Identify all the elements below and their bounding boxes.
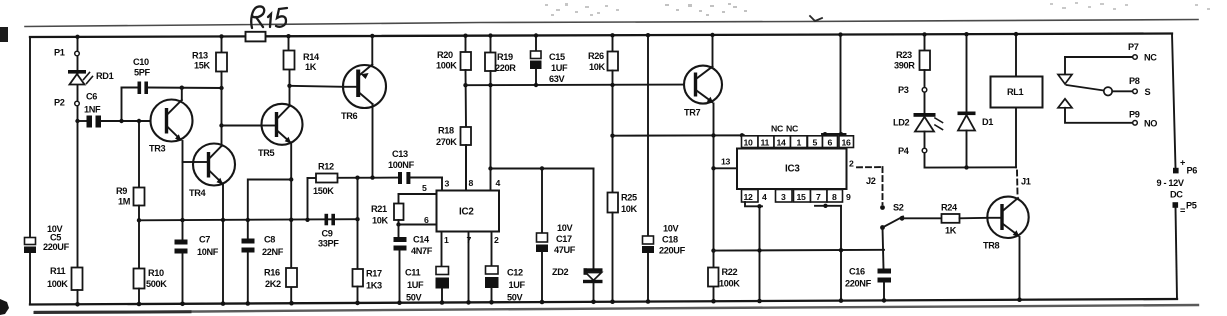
- svg-text:1M: 1M: [118, 197, 131, 207]
- svg-text:P1: P1: [54, 48, 65, 58]
- svg-text:+: +: [1180, 158, 1185, 168]
- capacitor C5: [25, 238, 36, 245]
- svg-text:RL1: RL1: [1007, 87, 1024, 97]
- svg-text:R19: R19: [497, 52, 513, 62]
- handwritten R15 annotation: [251, 6, 287, 28]
- svg-text:4: 4: [496, 178, 501, 188]
- svg-text:C8: C8: [264, 235, 275, 245]
- svg-text:R18: R18: [438, 126, 454, 136]
- svg-text:P9: P9: [1129, 110, 1140, 120]
- svg-text:500K: 500K: [146, 279, 167, 289]
- svg-text:ZD2: ZD2: [552, 267, 569, 277]
- node P4: [924, 132, 926, 148]
- svg-text:1NF: 1NF: [84, 105, 101, 115]
- IC op-amp IC2: [437, 191, 500, 232]
- svg-text:1K: 1K: [945, 226, 957, 236]
- svg-text:10K: 10K: [621, 204, 638, 214]
- wire P4 to relay coil node: [925, 153, 1017, 167]
- svg-text:D1: D1: [982, 117, 993, 127]
- scan artifact noise patch right: [1050, 2, 1210, 10]
- relay RL1: [1015, 34, 1017, 76]
- capacitor C12: [486, 266, 499, 274]
- svg-text:R9: R9: [116, 186, 127, 196]
- svg-text:C10: C10: [133, 57, 149, 67]
- scan artifact tick mark: [810, 16, 822, 21]
- left rail wire: [29, 37, 31, 238]
- IC2 pin 1: [441, 232, 443, 267]
- svg-text:6: 6: [828, 137, 833, 147]
- svg-text:16: 16: [842, 137, 852, 147]
- junction on P wire: [75, 119, 79, 123]
- scan artifact top line: [25, 20, 1198, 27]
- IC2 pin 2: [491, 232, 493, 267]
- node P2: [75, 101, 80, 106]
- svg-text:P2: P2: [54, 98, 65, 108]
- svg-text:DC: DC: [1170, 190, 1183, 200]
- capacitor C8: [289, 177, 293, 181]
- capacitor C15: [535, 36, 537, 52]
- svg-text:10: 10: [744, 137, 754, 147]
- wire P1 branch vertical: [77, 37, 79, 268]
- node P3: [924, 70, 926, 87]
- capacitor C17: [540, 166, 544, 170]
- bottom rail: [30, 299, 1177, 305]
- capacitor C18: [647, 35, 649, 236]
- scan artifact left edge blob top: [0, 27, 8, 42]
- svg-text:P7: P7: [1128, 42, 1139, 52]
- svg-text:10K: 10K: [372, 216, 389, 226]
- svg-text:5: 5: [422, 183, 427, 193]
- svg-text:1K3: 1K3: [366, 281, 382, 291]
- svg-text:C15: C15: [549, 52, 565, 62]
- svg-text:RD1: RD1: [96, 71, 114, 81]
- resistor R23: [924, 34, 926, 50]
- resistor R21: [398, 194, 400, 204]
- transistor TR4: [183, 161, 194, 163]
- svg-text:TR6: TR6: [341, 111, 358, 121]
- svg-text:2: 2: [494, 235, 499, 245]
- svg-text:12: 12: [744, 192, 754, 202]
- scan artifact left edge blob bottom: [0, 299, 9, 315]
- resistor R16: [289, 218, 293, 222]
- IC2 pin 3: [441, 178, 443, 191]
- wire IC3 pin 16 to rail: [840, 35, 842, 134]
- svg-text:R26: R26: [588, 51, 604, 61]
- svg-text:2K2: 2K2: [265, 279, 281, 289]
- top rail junction dot P wire: [75, 35, 79, 39]
- svg-text:NC: NC: [786, 124, 799, 134]
- IC logic IC3: [737, 149, 847, 190]
- wire R14 to TR6 base: [287, 84, 291, 88]
- svg-text:5: 5: [813, 137, 818, 147]
- capacitor C7: [180, 218, 184, 222]
- wire to IC3 pin10: [613, 135, 745, 136]
- wire pin4 bus y168: [491, 168, 594, 170]
- svg-text:10V: 10V: [663, 224, 680, 234]
- svg-text:100K: 100K: [719, 279, 740, 289]
- IC2 pin 5: [399, 193, 437, 195]
- svg-text:4N7F: 4N7F: [411, 246, 433, 256]
- resistor R15 (series in top rail): [246, 32, 266, 42]
- svg-text:NC: NC: [771, 124, 784, 134]
- svg-text:TR4: TR4: [189, 188, 207, 198]
- svg-text:1UF: 1UF: [407, 280, 424, 290]
- capacitor C9: [325, 214, 329, 226]
- transistor TR7: [684, 66, 722, 104]
- svg-text:P6: P6: [1187, 166, 1198, 176]
- svg-text:C13: C13: [392, 149, 408, 159]
- resistor R11: [72, 268, 83, 291]
- svg-text:LD2: LD2: [893, 118, 910, 128]
- svg-text:P3: P3: [898, 85, 909, 95]
- svg-text:C7: C7: [199, 235, 210, 245]
- svg-text:IC2: IC2: [459, 207, 474, 218]
- capacitor C14: [398, 225, 400, 238]
- IC2 pin 8: [465, 145, 467, 191]
- svg-text:220R: 220R: [495, 63, 516, 73]
- svg-text:8: 8: [469, 178, 474, 188]
- scan artifact noise patch 2: [665, 3, 747, 16]
- svg-text:NO: NO: [1144, 119, 1157, 129]
- svg-text:TR7: TR7: [684, 108, 701, 118]
- svg-text:TR3: TR3: [149, 144, 166, 154]
- svg-text:6: 6: [424, 215, 429, 225]
- svg-text:10NF: 10NF: [197, 247, 219, 257]
- resistor R20: [465, 36, 467, 52]
- capacitor C16: [883, 228, 884, 269]
- wire IC3 pin 13 stub: [714, 167, 738, 169]
- svg-text:9 - 12V: 9 - 12V: [1157, 178, 1185, 188]
- resistor R12: [307, 178, 309, 220]
- svg-text:7: 7: [816, 192, 821, 202]
- resistor R14: [288, 36, 290, 50]
- svg-text:15: 15: [797, 192, 807, 202]
- svg-text:P8: P8: [1129, 76, 1140, 86]
- svg-text:R23: R23: [896, 50, 912, 60]
- transistor TR8: [987, 197, 1028, 238]
- svg-text:100NF: 100NF: [388, 160, 415, 170]
- IC3 pin 7/8/9 ground wire: [815, 205, 841, 207]
- resistor R22: [708, 268, 719, 287]
- svg-text:C18: C18: [662, 235, 678, 245]
- link J1: [1016, 171, 1019, 195]
- svg-text:C12: C12: [507, 268, 523, 278]
- svg-text:390R: 390R: [894, 61, 915, 71]
- svg-text:P4: P4: [898, 146, 910, 156]
- relay contact NO to P9: [1058, 99, 1072, 108]
- capacitor C10: [122, 87, 138, 89]
- svg-text:1: 1: [444, 235, 449, 245]
- transistor TR6 (PNP): [343, 65, 386, 108]
- svg-text:R25: R25: [621, 193, 637, 203]
- scan artifact noise patch 1: [545, 3, 619, 16]
- svg-text:R17: R17: [366, 269, 382, 279]
- node P5 supply -: [1173, 202, 1179, 208]
- diode D1: [966, 34, 968, 111]
- svg-text:63V: 63V: [549, 74, 566, 84]
- transistor TR5: [262, 104, 303, 145]
- svg-text:9: 9: [846, 192, 851, 202]
- capacitor C11: [436, 267, 449, 275]
- svg-text:C11: C11: [405, 268, 421, 278]
- svg-text:22NF: 22NF: [262, 247, 284, 257]
- svg-text:R24: R24: [941, 203, 958, 213]
- resistor R19: [490, 36, 492, 53]
- svg-text:R11: R11: [50, 266, 66, 276]
- svg-text:1K: 1K: [305, 62, 317, 72]
- IC2 pin 7: [468, 232, 470, 303]
- wire TR5 base: [219, 123, 223, 127]
- resistor R10: [137, 218, 141, 222]
- svg-text:R10: R10: [148, 268, 164, 278]
- IC2 pin 4: [490, 169, 492, 191]
- LED LD2: [924, 93, 926, 114]
- top rail: [30, 35, 246, 38]
- relay contact NC to P7: [1065, 56, 1132, 58]
- svg-text:J2: J2: [866, 176, 876, 186]
- svg-text:R13: R13: [192, 51, 208, 61]
- svg-text:TR8: TR8: [983, 241, 1000, 251]
- resistor R26: [612, 35, 614, 51]
- scan artifact bottom smudge line: [35, 305, 1198, 312]
- svg-text:14: 14: [777, 137, 787, 147]
- bottom rail junction dots: [75, 297, 1022, 306]
- svg-text:C16: C16: [849, 267, 865, 277]
- svg-text:C14: C14: [413, 235, 430, 245]
- resistor R24: [902, 217, 942, 219]
- resistor R13: [221, 36, 223, 52]
- svg-text:50V: 50V: [507, 293, 524, 303]
- svg-text:10V: 10V: [557, 223, 574, 233]
- IC2 pin 6: [399, 224, 437, 226]
- wire lower horizontal bus: [139, 219, 358, 220]
- resistor R17: [355, 217, 359, 221]
- svg-text:J1: J1: [1021, 177, 1031, 187]
- svg-text:220UF: 220UF: [43, 242, 70, 252]
- svg-text:220NF: 220NF: [845, 279, 872, 289]
- svg-text:S2: S2: [893, 203, 904, 213]
- node P6 supply +: [1173, 168, 1179, 174]
- node P1: [75, 51, 80, 56]
- IC3 pin 12 ground wire: [745, 202, 762, 206]
- wire base bus y85: [466, 84, 685, 87]
- svg-text:33PF: 33PF: [318, 239, 339, 249]
- svg-text:C17: C17: [556, 234, 572, 244]
- svg-text:S: S: [1145, 87, 1151, 97]
- right border wire (supply input): [1172, 34, 1176, 168]
- resistor R9: [137, 119, 141, 123]
- svg-text:15K: 15K: [194, 61, 211, 71]
- resistor R18: [465, 70, 468, 127]
- svg-text:R16: R16: [264, 268, 280, 278]
- svg-text:IC3: IC3: [785, 164, 800, 175]
- svg-text:R22: R22: [722, 267, 738, 277]
- resistor R25: [608, 193, 619, 213]
- svg-text:TR5: TR5: [258, 148, 275, 158]
- svg-text:1: 1: [797, 137, 802, 147]
- svg-text:50V: 50V: [406, 293, 423, 303]
- svg-text:5PF: 5PF: [134, 68, 151, 78]
- svg-text:C5: C5: [50, 233, 61, 243]
- svg-text:1UF: 1UF: [509, 280, 526, 290]
- svg-text:C6: C6: [86, 92, 97, 102]
- svg-text:4: 4: [762, 192, 767, 202]
- relay contact arm: [1067, 85, 1104, 91]
- svg-text:150K: 150K: [313, 186, 334, 196]
- svg-text:R14: R14: [303, 52, 320, 62]
- svg-text:220UF: 220UF: [659, 246, 686, 256]
- svg-text:NC: NC: [1144, 53, 1157, 63]
- svg-text:R20: R20: [437, 50, 453, 60]
- wire riser to C10: [121, 88, 123, 122]
- svg-text:11: 11: [761, 137, 770, 147]
- wire ground bus y250: [714, 249, 885, 252]
- svg-text:10K: 10K: [589, 62, 606, 72]
- svg-text:100K: 100K: [436, 61, 457, 71]
- svg-text:3: 3: [445, 179, 450, 189]
- svg-text:1UF: 1UF: [551, 63, 568, 73]
- svg-text:13: 13: [721, 157, 731, 167]
- IC3 top pin boxes: [742, 136, 854, 148]
- svg-text:47UF: 47UF: [554, 245, 576, 255]
- svg-text:=: =: [1180, 206, 1185, 216]
- svg-text:R21: R21: [371, 204, 387, 214]
- svg-text:C9: C9: [322, 229, 333, 239]
- svg-text:3: 3: [781, 192, 786, 202]
- svg-text:270K: 270K: [436, 137, 457, 147]
- zener ZD2: [593, 169, 595, 269]
- capacitor C6: [78, 120, 87, 122]
- svg-text:7: 7: [467, 235, 472, 245]
- IC3 bottom pin boxes: [742, 190, 843, 203]
- capacitor C13: [398, 172, 402, 184]
- svg-text:100K: 100K: [47, 279, 68, 289]
- diode RD1: [68, 70, 86, 74]
- svg-text:R12: R12: [318, 162, 334, 172]
- switch S2: [880, 205, 885, 210]
- svg-text:P5: P5: [1186, 201, 1197, 211]
- svg-text:2: 2: [849, 159, 854, 169]
- svg-text:8: 8: [832, 192, 837, 202]
- transistor TR3: [151, 100, 193, 142]
